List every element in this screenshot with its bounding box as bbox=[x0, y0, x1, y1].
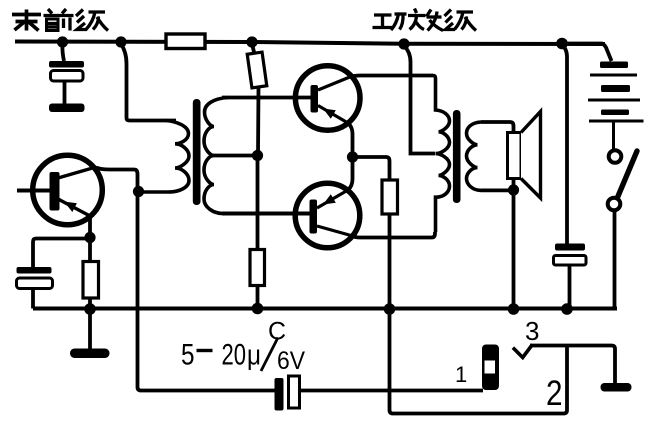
transistor Q1 circle bbox=[33, 155, 103, 225]
wire T1 secondary top lead to Q2 base bbox=[222, 96, 311, 100]
svg-text:20: 20 bbox=[222, 339, 247, 372]
wire top supply rail bbox=[15, 42, 605, 45]
capacitor C3 top plate bbox=[555, 244, 585, 251]
label 功放级 (drawn strokes) bbox=[373, 14, 407, 30]
wire node D to C2 bbox=[33, 239, 90, 268]
node F (top rail / bias resistor) bbox=[246, 36, 257, 47]
wire bottom ground rail bbox=[33, 307, 617, 311]
transistor Q2 collector stroke bbox=[318, 77, 351, 91]
transformer T2 core bbox=[453, 110, 461, 203]
transformer T1 core bbox=[193, 99, 201, 205]
resistor R3 (emitters) bbox=[382, 180, 398, 214]
wire Q3 emitter up to node J bbox=[348, 157, 353, 190]
node H (rail / R5) bbox=[252, 303, 264, 315]
wire node J to R3 bbox=[353, 157, 390, 180]
transformer T1 primary winding bbox=[166, 121, 189, 193]
transistor Q3 base bar bbox=[310, 200, 318, 234]
label 末前级 (drawn strokes) bbox=[12, 10, 41, 31]
jack J1 switch contact 3 (check mark) bbox=[513, 345, 533, 358]
wire bias chain vertical bbox=[256, 87, 260, 156]
jack terminal bar (ground stub) bbox=[601, 383, 632, 392]
transformer T1 secondary winding bbox=[204, 98, 228, 214]
wire Q2 collector to T2 primary top bbox=[351, 76, 433, 77]
resistor R1 (in top rail) bbox=[166, 34, 205, 49]
svg-text:6V: 6V bbox=[277, 347, 305, 375]
transistor Q2 emitter stroke bbox=[318, 106, 348, 124]
transistor Q2 emitter arrow bbox=[323, 109, 336, 119]
transformer T2 primary winding bbox=[433, 76, 450, 233]
wire bbox=[63, 82, 67, 105]
svg-text:3: 3 bbox=[525, 316, 539, 346]
wire C3 to ground rail bbox=[568, 265, 572, 309]
resistor R2 (Q1 emitter) bbox=[88, 239, 92, 262]
transistor Q1 emitter stroke bbox=[58, 199, 90, 216]
wire bbox=[62, 44, 64, 61]
wire node C down to coupling line bbox=[138, 192, 275, 391]
ground (top-left) bbox=[49, 104, 85, 113]
switch S1 upper terminal bbox=[609, 150, 622, 163]
svg-text:5: 5 bbox=[181, 339, 195, 372]
transistor Q3 emitter stroke bbox=[317, 190, 348, 208]
battery BT1 plate 6 (long thin) bbox=[589, 120, 644, 123]
wire Q1 base input lead bbox=[17, 189, 50, 193]
wire node L down to T2 tap bbox=[404, 46, 435, 154]
node E (rail / R2) bbox=[84, 303, 96, 315]
battery BT1 plate 3 (short thick) bbox=[601, 85, 630, 92]
capacitor C2 bottom plate bbox=[17, 278, 53, 289]
battery BT1 plate 4 (long thin) bbox=[588, 99, 640, 102]
node K (rail / R3) bbox=[384, 303, 396, 315]
capacitor C1 top plate bbox=[49, 61, 84, 68]
wire battery to switch bbox=[612, 123, 615, 151]
node C (Q1 collector / T1 primary) bbox=[133, 186, 144, 197]
transistor Q1 collector stroke bbox=[58, 167, 96, 178]
transformer T2 secondary winding bbox=[467, 122, 482, 190]
node G (center tap) bbox=[252, 150, 263, 161]
jack J1 plug (tip contact 1) bbox=[482, 345, 499, 391]
wire C2 to ground rail bbox=[31, 289, 35, 309]
wire C right lead to jack tip bbox=[300, 389, 484, 393]
wire Q3 collector to T2 primary bottom bbox=[351, 232, 435, 238]
node B (top rail to T1 primary) bbox=[115, 36, 126, 47]
capacitor C right plate bbox=[289, 376, 300, 408]
node P (top rail / battery branch) bbox=[556, 38, 568, 50]
svg-text:1: 1 bbox=[455, 362, 467, 387]
svg-text:μ: μ bbox=[247, 340, 261, 372]
resistor R5 (bias lower) bbox=[250, 250, 265, 286]
wire rail to ground symbol bbox=[88, 309, 92, 349]
battery BT1 plate 5 (short thick) bbox=[601, 110, 629, 116]
node top-left A bbox=[57, 36, 68, 47]
transistor Q2 base bar bbox=[311, 85, 319, 113]
wire Q1 collector to node C bbox=[96, 168, 138, 192]
transistor Q3 circle bbox=[295, 183, 360, 248]
speaker driver rectangle bbox=[508, 133, 522, 179]
switch S1 lever bbox=[616, 151, 637, 201]
wire T1 primary bottom lead bbox=[140, 190, 170, 194]
battery BT1 plate 1 (short thick) bbox=[600, 62, 628, 69]
transistor Q3 collector stroke bbox=[317, 226, 351, 236]
transistor Q1 base bar bbox=[50, 172, 60, 211]
transistor Q1 emitter arrow bbox=[64, 202, 77, 213]
wire T1 secondary bottom lead to Q3 base bbox=[222, 212, 310, 216]
capacitor C left plate bbox=[275, 378, 284, 411]
capacitor C1 bottom plate bbox=[51, 71, 84, 82]
node D (Q1 emitter) bbox=[84, 232, 95, 243]
wire center tap down bbox=[256, 156, 260, 250]
wire bbox=[121, 44, 176, 121]
svg-text:2: 2 bbox=[546, 374, 563, 413]
transistor Q2 circle bbox=[295, 66, 360, 131]
wire battery top lead bbox=[562, 44, 612, 62]
wire R5 to rail bbox=[256, 286, 260, 309]
wire T1 center tap bbox=[210, 154, 258, 158]
wire Q2 emitter down to node J bbox=[348, 123, 353, 157]
wire T2 secondary top lead to speaker bbox=[481, 122, 514, 133]
capacitor C2 top plate bbox=[17, 267, 52, 274]
jack J1 plug notch bbox=[485, 361, 496, 374]
wire R3 to rail bbox=[388, 214, 392, 309]
node N (rail / speaker) bbox=[508, 303, 520, 315]
wire speaker to rail bbox=[512, 179, 516, 309]
capacitor C3 bottom plate bbox=[554, 256, 587, 266]
node M (speaker bottom) bbox=[508, 184, 519, 195]
battery BT1 plate 2 (long thin) bbox=[590, 74, 637, 77]
wire node F to R4 bbox=[252, 44, 255, 54]
speaker cone bbox=[521, 112, 541, 199]
node Q (rail / battery branch) bbox=[561, 303, 573, 315]
wire contact 3 to terminal bar bbox=[530, 346, 615, 384]
wire T2 secondary bottom lead bbox=[481, 188, 514, 192]
switch S1 lower terminal bbox=[608, 198, 621, 211]
wire node K down to jack sleeve bbox=[390, 309, 568, 414]
wire battery branch left drop bbox=[562, 45, 567, 244]
resistor R4 (bias upper, tilted) bbox=[247, 52, 267, 88]
transistor Q3 emitter arrow bbox=[323, 194, 336, 204]
wire switch to rail bbox=[613, 211, 617, 309]
wire Q1 emitter down bbox=[88, 216, 92, 237]
node J (emitters) bbox=[347, 151, 358, 162]
node L (top rail / T2 center tap) bbox=[398, 38, 409, 49]
ground (bottom-left) bbox=[70, 349, 110, 359]
